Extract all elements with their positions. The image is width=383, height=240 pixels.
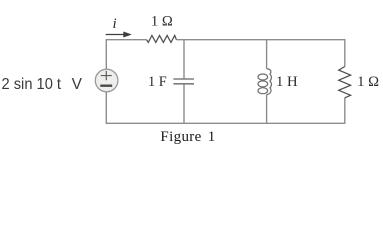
- voltage source V1 (2 sin 10t V): [95, 69, 118, 92]
- current arrow i: [106, 32, 132, 38]
- resistor R1 (1 ohm, top): [147, 35, 177, 42]
- resistor R2 (1 ohm, right): [339, 67, 351, 98]
- svg-text:1 F: 1 F: [148, 74, 167, 90]
- svg-text:Figure 1: Figure 1: [160, 129, 215, 145]
- wire left-upper: [105, 39, 107, 69]
- svg-text:V: V: [72, 76, 83, 93]
- wire top-left segment: [106, 39, 146, 41]
- wire capacitor-branch lower: [183, 84, 185, 124]
- inductor L1 (1 H): [258, 69, 271, 95]
- svg-text:2 sin 10 t: 2 sin 10 t: [2, 76, 62, 93]
- wire right-upper: [344, 39, 346, 67]
- wire left-lower: [105, 92, 107, 124]
- wire bottom: [106, 122, 344, 124]
- wire right-lower: [344, 98, 346, 124]
- wire inductor-branch upper: [266, 40, 268, 69]
- svg-text:i: i: [113, 16, 117, 32]
- wire top-right segment: [176, 39, 344, 41]
- capacitor C1 (1 F): [173, 79, 194, 84]
- svg-text:1 Ω: 1 Ω: [151, 14, 173, 30]
- wire inductor-branch lower: [266, 95, 268, 124]
- wire capacitor-branch upper: [183, 40, 185, 79]
- svg-text:1 H: 1 H: [276, 74, 298, 90]
- svg-text:1 Ω: 1 Ω: [357, 74, 379, 90]
